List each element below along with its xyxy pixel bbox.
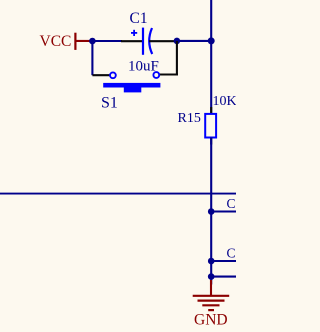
wire horizontal bus line full width	[0, 193, 236, 195]
resistor R15	[205, 107, 216, 145]
svg-text:C: C	[227, 246, 236, 261]
label R15	[178, 111, 201, 126]
svg-text:C1: C1	[130, 10, 148, 27]
node C (main vertical junction)	[208, 37, 215, 44]
wire node B down to S1 right terminal	[160, 41, 179, 75]
node D	[208, 208, 215, 215]
label GND	[194, 312, 228, 329]
svg-text:GND: GND	[194, 312, 228, 329]
power port VCC	[40, 33, 91, 50]
node F	[208, 273, 215, 280]
wire node D to right edge	[211, 210, 236, 212]
node B (C1 right junction)	[174, 38, 181, 45]
node A (VCC junction)	[89, 38, 96, 45]
wire node B to node C	[177, 40, 211, 42]
wire node A down to S1 left terminal	[92, 41, 109, 75]
node E	[208, 258, 215, 265]
net label C (upper)	[227, 196, 236, 211]
label C1	[130, 10, 148, 27]
label S1	[101, 95, 118, 112]
wire main vertical (top to R15)	[210, 0, 212, 114]
capacitor C1 pin 2	[149, 40, 175, 42]
wire node E to right edge	[211, 260, 236, 262]
wire node F to right edge	[211, 276, 236, 278]
value 10K	[213, 94, 237, 109]
value 10uF	[128, 59, 159, 75]
capacitor C1	[131, 28, 152, 55]
wire VCC node to C1	[92, 40, 122, 42]
ground	[193, 280, 230, 310]
net label C (lower)	[227, 246, 236, 261]
svg-text:VCC: VCC	[40, 33, 72, 50]
capacitor C1 pin 1	[121, 40, 142, 42]
svg-text:C: C	[227, 196, 236, 211]
switch S1	[103, 72, 160, 92]
svg-text:R15: R15	[178, 111, 201, 126]
svg-text:S1: S1	[101, 95, 118, 112]
wire main vertical (R15 down to ground)	[210, 138, 212, 285]
svg-text:10K: 10K	[213, 94, 237, 109]
